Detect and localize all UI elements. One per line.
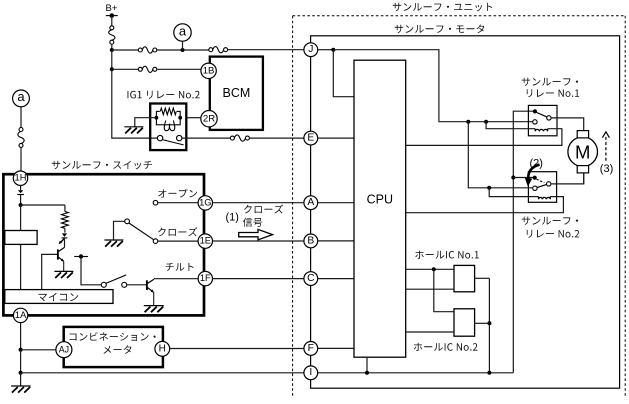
motor bottom brush xyxy=(577,166,588,173)
wire H to F xyxy=(170,348,304,350)
wire 1H down xyxy=(20,185,22,190)
wire CPU to hall1 pin1 xyxy=(406,268,454,270)
connector H xyxy=(155,341,170,356)
wire SW3 to Q2 base xyxy=(127,284,146,286)
ground (SW2 common) xyxy=(104,240,123,247)
wire row1 left segment xyxy=(112,49,139,51)
wire feed point to tilt switch xyxy=(81,257,101,285)
wire diode to junction xyxy=(20,195,22,206)
node hall supply branch xyxy=(432,267,436,271)
label クローズ xyxy=(158,227,197,236)
relay No.2 arm (energized, dashed) xyxy=(537,179,545,182)
ground (IG1 relay coil) xyxy=(124,127,143,134)
wire row2 to 1B xyxy=(157,68,201,70)
wire junction right to resistor xyxy=(21,204,65,206)
wire IG1 coil left to ground xyxy=(135,118,157,127)
node AJ branch xyxy=(19,348,23,352)
wire I ground bus xyxy=(318,372,514,374)
fuse on E line xyxy=(230,135,249,141)
wire E to CPU xyxy=(318,137,354,139)
wire hall outputs to ground bus xyxy=(488,278,490,373)
wire relay No.2 coil to CPU xyxy=(406,197,564,213)
relay No.1 box xyxy=(528,105,557,135)
svg-text:a: a xyxy=(17,89,25,104)
wire relay No.2 feed xyxy=(468,122,533,188)
relay No.1 arm xyxy=(536,112,548,117)
svg-text:2R: 2R xyxy=(203,114,215,125)
ground (Q1 emitter) xyxy=(54,271,73,278)
wire J branch to CPU xyxy=(333,50,354,97)
label 信号 xyxy=(243,218,262,227)
relay No.2 box xyxy=(528,172,556,203)
connector J xyxy=(304,43,318,57)
connector 1E xyxy=(198,234,212,248)
relay IG1 switch contacts xyxy=(157,135,181,140)
connector a (top) xyxy=(174,23,191,41)
node a1 stub junction xyxy=(181,41,185,52)
relay No.1 common dot xyxy=(533,109,537,113)
wire CPU bottom to ground bus xyxy=(366,357,368,373)
connector I xyxy=(304,366,318,380)
connector 1A xyxy=(13,308,27,322)
label サンルーフ・ユニット xyxy=(393,3,493,12)
relay No.2 common dot xyxy=(533,176,537,180)
relay IG1 right terminal dot xyxy=(178,116,182,120)
relay No.1 NC contact xyxy=(533,120,537,124)
motor top brush xyxy=(577,131,588,138)
relay IG1 switch lever xyxy=(162,140,183,145)
node relay2 common branch xyxy=(511,176,515,180)
wire fuse to junction xyxy=(111,44,113,50)
svg-text:E: E xyxy=(307,133,314,144)
label コンビネーション・ xyxy=(70,332,156,341)
relay IG1 coil loops xyxy=(164,121,175,131)
svg-text:B+: B+ xyxy=(106,3,118,14)
connector C xyxy=(304,272,318,286)
wire hall2 output xyxy=(475,322,490,324)
connector AJ xyxy=(56,342,72,358)
svg-text:H: H xyxy=(159,343,166,354)
microcomputer box マイコン xyxy=(5,290,113,304)
wire Q1 base to microcomputer xyxy=(42,254,57,289)
wire fuse to 1H xyxy=(20,147,22,171)
wire J to junction xyxy=(318,49,334,51)
dashed arrow (3) motor direction xyxy=(602,132,609,162)
label クローズ (signal) xyxy=(244,205,283,214)
connector a (left) xyxy=(13,89,30,107)
label サンルーフ・ (relay2) xyxy=(522,217,578,225)
wire row2 segment xyxy=(112,68,139,70)
wire coil2 feed jog xyxy=(489,188,538,197)
relay IG1 left terminal dot xyxy=(155,116,159,120)
wire クローズ contact to 1E xyxy=(158,240,198,242)
wire motor bottom lead xyxy=(583,173,585,184)
label オープン xyxy=(158,189,197,198)
box component (relay coil) in switch xyxy=(5,231,37,245)
wire SW2 pivot to ground xyxy=(114,221,125,240)
connector E xyxy=(304,131,318,145)
node hall2 output junction xyxy=(487,321,491,325)
wire row1 right segment to J xyxy=(228,49,304,51)
svg-text:CPU: CPU xyxy=(367,192,393,206)
feed point node (tilt common) xyxy=(74,254,88,258)
relay No.1 NO contact xyxy=(547,116,551,120)
svg-text:B: B xyxy=(307,235,314,246)
wire B+ down to fuse xyxy=(111,16,113,26)
node coil1 feed branch xyxy=(466,120,488,124)
svg-text:1B: 1B xyxy=(203,65,215,76)
label チルト xyxy=(166,263,194,271)
resistor R1 (switch illumination) xyxy=(62,205,69,233)
hall IC No.2 box xyxy=(454,309,475,336)
wire relay No.1 coil to CPU xyxy=(406,129,562,146)
wire branch to AJ xyxy=(21,349,56,351)
CPU box xyxy=(354,60,406,357)
LED / diode D2 with arrow xyxy=(59,233,68,244)
connector 2R xyxy=(201,111,217,127)
svg-text:BCM: BCM xyxy=(223,86,251,100)
node hall ground xyxy=(487,371,491,375)
node junction B+ row1 xyxy=(110,48,114,52)
svg-text:1F: 1F xyxy=(200,273,211,283)
wire オープン contact to 1G xyxy=(158,202,198,204)
wire branch to hall2 pin1 xyxy=(434,269,454,311)
node ground junction xyxy=(19,371,23,375)
wire hall1 output xyxy=(475,277,490,279)
wire CPU to hall1 pin2 xyxy=(406,288,454,290)
wire B to CPU xyxy=(318,240,354,242)
svg-text:C: C xyxy=(307,273,315,284)
svg-text:F: F xyxy=(308,343,314,354)
relay No.2 NC contact xyxy=(533,186,537,190)
label マイコン xyxy=(39,293,79,302)
fusible link on B+ line xyxy=(109,26,115,44)
wire 1G to A xyxy=(213,202,305,204)
label リレー No.1 xyxy=(527,89,579,97)
connector 1F xyxy=(198,271,212,285)
node switch supply junction xyxy=(19,203,23,207)
svg-text:J: J xyxy=(308,44,313,55)
fuse 2 on row1 xyxy=(209,47,228,53)
wire Q2 collector to 1F xyxy=(154,278,198,280)
diode D1 below 1H xyxy=(17,190,24,194)
svg-text:1H: 1H xyxy=(15,173,27,183)
svg-text:1A: 1A xyxy=(15,310,27,320)
svg-text:A: A xyxy=(307,197,314,208)
connector 1B xyxy=(201,63,216,78)
label ホールIC No.2 xyxy=(414,343,478,351)
label サンルーフ・ (relay1) xyxy=(522,78,578,86)
svg-text:(3): (3) xyxy=(600,163,613,175)
label メータ xyxy=(103,345,131,354)
wire 2R to relay xyxy=(186,117,201,119)
node junction B+ row2 xyxy=(110,67,114,71)
wire 1F to C xyxy=(213,278,305,280)
connector 1H xyxy=(13,171,27,185)
wire fuse to E xyxy=(249,137,304,139)
label サンルーフ・スイッチ xyxy=(52,161,152,170)
wire relay No.1 NO to motor top xyxy=(551,118,584,131)
svg-text:1E: 1E xyxy=(200,236,211,246)
wire relay No.2 NO to motor bottom xyxy=(551,172,584,184)
wire junction down through box component xyxy=(20,205,22,290)
wire CPU to hall2 pin2 xyxy=(406,331,454,333)
wire F to CPU xyxy=(318,347,354,349)
svg-text:I: I xyxy=(309,367,312,378)
switch contact クローズ xyxy=(153,239,158,244)
combination meter box xyxy=(64,327,163,367)
label IG1 リレー No.2 xyxy=(128,91,200,99)
svg-text:1G: 1G xyxy=(199,197,211,207)
wire branch to relay2 common xyxy=(513,177,533,179)
power feed point symbol below B+ xyxy=(106,13,118,18)
wire 1E to B xyxy=(213,240,305,242)
connector 1G xyxy=(198,196,212,210)
switch SW3 lever xyxy=(106,275,126,284)
relay No.2 NO contact xyxy=(547,182,551,186)
wire junction down xyxy=(111,50,113,69)
wire a down to fuse xyxy=(20,106,22,127)
motor M circle xyxy=(568,137,598,167)
bold arrow (2) relay action xyxy=(525,165,540,187)
wire coil1 feed jog xyxy=(486,122,535,129)
relay No.1 coil xyxy=(535,129,547,132)
ground (body earth) xyxy=(11,386,31,393)
ground (Q2 emitter) xyxy=(144,306,164,313)
relay No.2 coil xyxy=(539,197,551,200)
transistor Q1 xyxy=(58,247,65,271)
label ホールIC No.1 xyxy=(415,251,479,259)
transistor Q2 xyxy=(147,279,154,305)
relay IG1 box xyxy=(150,104,186,151)
wire down to ground line xyxy=(20,350,22,373)
wire 1A down xyxy=(20,323,22,350)
label サンルーフ・モータ xyxy=(395,25,485,34)
wire junction down to relay contact xyxy=(112,69,157,138)
block arrow クローズ信号 xyxy=(239,229,273,239)
sunroof switch box xyxy=(3,174,204,315)
node CPU ground xyxy=(365,371,369,375)
switch SW2 lever xyxy=(129,223,154,240)
wire D2 to Q1 collector xyxy=(64,238,66,247)
switch contact オープン xyxy=(153,200,158,205)
connector F xyxy=(304,342,318,356)
hall IC No.1 box xyxy=(454,265,475,291)
fuse on row1 xyxy=(138,47,157,53)
wire relay common bus (from I) xyxy=(513,111,533,373)
fusible link on a line xyxy=(18,128,24,148)
svg-text:M: M xyxy=(575,141,590,162)
node J branch xyxy=(331,48,335,52)
connector A xyxy=(304,196,318,210)
svg-text:AJ: AJ xyxy=(59,345,69,355)
wire ground line to I xyxy=(21,372,304,374)
relay No.2 arm resting xyxy=(537,184,547,187)
label リレー No.2 xyxy=(527,230,580,238)
relay IG1 coil assembly inner box xyxy=(156,111,180,124)
wire row1 middle segment xyxy=(157,49,209,51)
switch SW3 チルト contacts xyxy=(101,282,126,287)
node coil2 feed branch xyxy=(487,186,491,190)
svg-text:(1): (1) xyxy=(226,211,239,223)
BCM box xyxy=(210,57,263,130)
outer dashed box サンルーフ・ユニット (sunroof unit) xyxy=(293,16,626,398)
wire A to CPU xyxy=(318,202,354,204)
connector B xyxy=(304,234,318,248)
switch SW2 pivot contact xyxy=(125,219,130,224)
wire node to ground xyxy=(20,373,22,386)
relay IG1 resistor (zigzag on inner box top) xyxy=(160,108,177,115)
fuse on row2 xyxy=(138,66,157,72)
wire C to CPU xyxy=(318,278,354,280)
svg-text:a: a xyxy=(179,23,187,38)
wire IG1 switch out right xyxy=(182,137,230,139)
wire J branch to relays (B+ feed) xyxy=(333,50,532,122)
sunroof motor box (solid) xyxy=(311,36,620,388)
